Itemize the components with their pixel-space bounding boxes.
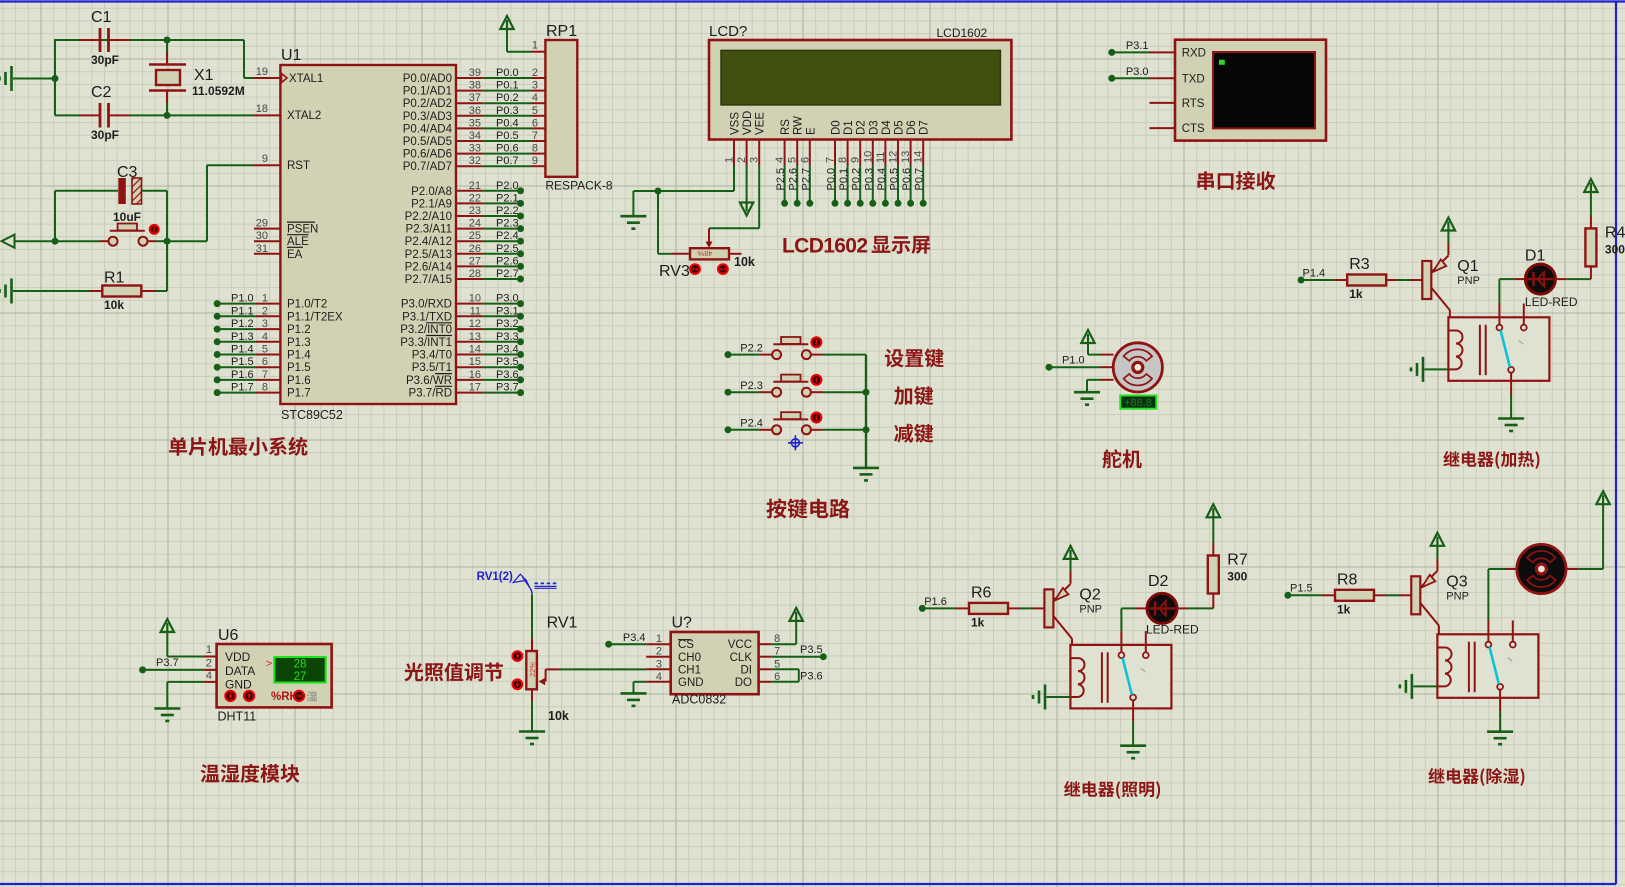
svg-text:VSS: VSS bbox=[730, 112, 742, 135]
adc pin 1 bbox=[646, 643, 671, 645]
pin P3.2 (12) + net P3.2 bbox=[456, 328, 483, 330]
transistor Q1 emitter bbox=[1447, 243, 1449, 255]
svg-text:X1: X1 bbox=[194, 67, 214, 84]
lcd net P2.7 bbox=[809, 165, 811, 200]
resistor R3 bbox=[1347, 275, 1386, 286]
servo ground wire bbox=[1087, 379, 1101, 381]
pin RST (9) bbox=[254, 164, 280, 166]
svg-text:LCD1602: LCD1602 bbox=[937, 26, 988, 40]
svg-text:P0.3: P0.3 bbox=[496, 105, 519, 117]
svg-text:VDD: VDD bbox=[742, 111, 754, 135]
svg-text:P0.5: P0.5 bbox=[496, 130, 519, 142]
svg-text:R8: R8 bbox=[1337, 571, 1358, 588]
svg-text:D7: D7 bbox=[919, 120, 931, 135]
svg-text:P2.7/A15: P2.7/A15 bbox=[405, 274, 452, 286]
label: serial section bbox=[1197, 171, 1275, 190]
svg-text:P3.3/INT1: P3.3/INT1 bbox=[400, 337, 452, 349]
svg-text:P3.2: P3.2 bbox=[496, 318, 519, 330]
svg-text:P1.3: P1.3 bbox=[231, 331, 254, 343]
pin P1.2 (3) + net P1.2 bbox=[214, 326, 221, 333]
svg-text:Q1: Q1 bbox=[1457, 258, 1478, 275]
svg-text:10k: 10k bbox=[104, 298, 124, 312]
ground (RL2 coil) bbox=[1044, 685, 1047, 710]
resistor R8 bbox=[1335, 590, 1374, 601]
svg-text:4: 4 bbox=[656, 671, 662, 683]
svg-text:2: 2 bbox=[206, 658, 212, 670]
net P3.1 bbox=[1108, 49, 1115, 56]
svg-text:RP1: RP1 bbox=[546, 23, 577, 40]
svg-text:VEE: VEE bbox=[755, 112, 767, 135]
svg-text:P0.4/AD4: P0.4/AD4 bbox=[403, 123, 453, 135]
svg-text:9: 9 bbox=[532, 155, 538, 167]
pin P1.4 (5) + net P1.4 bbox=[214, 351, 221, 358]
pin P0.6 (33) wire to RP1 pin 8 bbox=[456, 153, 483, 155]
resistor R7 300 bbox=[1212, 594, 1214, 609]
net P1.6 bbox=[919, 605, 926, 612]
actuator RV3 + bbox=[718, 264, 728, 274]
pin P0.3 (36) wire to RP1 pin 5 bbox=[456, 115, 483, 117]
svg-text:>: > bbox=[266, 658, 272, 670]
svg-text:P0.4: P0.4 bbox=[496, 117, 519, 129]
ground (RL1 coil) bbox=[1422, 357, 1425, 382]
svg-text:D5: D5 bbox=[894, 120, 906, 135]
svg-text:P1.0/T2: P1.0/T2 bbox=[287, 299, 327, 311]
keys ground bus bbox=[865, 355, 867, 468]
svg-text:P3.7: P3.7 bbox=[496, 382, 519, 394]
serial pin RTS bbox=[1150, 102, 1176, 104]
svg-text:P2.4/A12: P2.4/A12 bbox=[405, 236, 452, 248]
relay RL3 moving contact bbox=[1490, 647, 1499, 684]
svg-text:P2.7: P2.7 bbox=[496, 268, 519, 280]
svg-text:P1.5: P1.5 bbox=[1290, 583, 1313, 595]
svg-text:XTAL1: XTAL1 bbox=[289, 73, 323, 85]
pin P3.6 (16) + net P3.6 bbox=[456, 379, 483, 381]
pin XTAL2 (18) bbox=[254, 114, 280, 116]
label key 加键 bbox=[894, 386, 933, 405]
svg-text:Q2: Q2 bbox=[1079, 586, 1100, 603]
servo motor bbox=[1101, 354, 1114, 356]
power flag (DHT11) bbox=[161, 619, 174, 632]
svg-text:32: 32 bbox=[469, 155, 481, 167]
transistor Q2 (PNP) bbox=[1044, 589, 1053, 627]
svg-text:10: 10 bbox=[469, 293, 481, 305]
svg-text:C2: C2 bbox=[91, 84, 112, 101]
svg-text:4: 4 bbox=[206, 670, 212, 682]
svg-text:2: 2 bbox=[532, 67, 538, 79]
net P3.0 bbox=[1108, 75, 1115, 82]
svg-text:48%: 48% bbox=[697, 249, 712, 258]
wire VEE to RV3 wiper bbox=[758, 165, 760, 228]
svg-text:P1.4: P1.4 bbox=[231, 344, 254, 356]
label: mcu section bbox=[169, 437, 308, 456]
svg-text:TXD: TXD bbox=[1182, 73, 1205, 85]
relay RL2 core bbox=[1101, 652, 1103, 703]
actuator (P2.3 key) bbox=[812, 375, 822, 385]
pin P1.1 (2) + net P1.1 bbox=[214, 313, 221, 320]
svg-text:33: 33 bbox=[469, 143, 481, 155]
label: keys section bbox=[766, 499, 849, 519]
svg-text:P1.1: P1.1 bbox=[231, 305, 254, 317]
svg-text:18: 18 bbox=[256, 103, 268, 115]
svg-text:CH0: CH0 bbox=[678, 652, 701, 664]
svg-text:P0.6: P0.6 bbox=[496, 143, 519, 155]
svg-text:DHT11: DHT11 bbox=[218, 710, 257, 724]
svg-text:P2.6: P2.6 bbox=[788, 168, 800, 191]
adc GND wire bbox=[634, 681, 647, 683]
actuator (reset button) bbox=[150, 225, 159, 234]
svg-text:P2.2: P2.2 bbox=[740, 342, 763, 354]
svg-text:P0.2: P0.2 bbox=[851, 168, 863, 191]
svg-text:E: E bbox=[805, 127, 817, 135]
svg-text:RV1(2): RV1(2) bbox=[477, 571, 513, 583]
svg-text:D1: D1 bbox=[843, 120, 855, 135]
wire Q1 collector to relay bbox=[1449, 310, 1451, 317]
svg-text:300: 300 bbox=[1605, 242, 1625, 256]
svg-text:1: 1 bbox=[532, 40, 538, 52]
ground (RL3 common) bbox=[1499, 711, 1501, 731]
svg-text:CLK: CLK bbox=[730, 652, 753, 664]
svg-text:P2.4: P2.4 bbox=[496, 230, 519, 242]
lcd net P0.6 bbox=[910, 165, 912, 200]
power flag (servo) bbox=[1081, 330, 1094, 343]
wire Q2 collector to relay bbox=[1071, 639, 1073, 645]
net P3.7 bbox=[139, 666, 146, 673]
pin P2.5 (26) + net P2.5 bbox=[456, 253, 483, 255]
svg-text:2: 2 bbox=[262, 305, 268, 317]
wire R1 to reset node bbox=[166, 241, 168, 291]
svg-text:P1.2: P1.2 bbox=[231, 318, 254, 330]
svg-text:17: 17 bbox=[469, 382, 481, 394]
adc pin 4 bbox=[646, 681, 671, 683]
svg-text:3: 3 bbox=[749, 157, 761, 163]
svg-text:P2.2: P2.2 bbox=[496, 205, 519, 217]
adc pin 5 bbox=[759, 668, 772, 670]
svg-text:P1.4: P1.4 bbox=[287, 350, 311, 362]
svg-text:P0.7/AD7: P0.7/AD7 bbox=[403, 161, 452, 173]
svg-text:29: 29 bbox=[256, 218, 268, 230]
dehumidifier motor bbox=[1488, 568, 1505, 570]
wire RV1 wiper to CH1 bbox=[559, 668, 646, 670]
relay RL3 common pin bbox=[1499, 690, 1501, 711]
svg-text:P3.4: P3.4 bbox=[623, 632, 646, 644]
svg-text:P2.1: P2.1 bbox=[496, 192, 519, 204]
svg-text:35: 35 bbox=[469, 117, 481, 129]
serial pin RXD bbox=[1150, 51, 1176, 53]
svg-text:P0.5/AD5: P0.5/AD5 bbox=[403, 136, 452, 148]
pin P1.5 (6) + net P1.5 bbox=[214, 364, 221, 371]
svg-text:1: 1 bbox=[262, 293, 268, 305]
relay RL3 coil bbox=[1437, 648, 1445, 687]
svg-text:30pF: 30pF bbox=[91, 128, 119, 142]
svg-text:39: 39 bbox=[469, 67, 481, 79]
transistor Q1 collector bbox=[1432, 288, 1450, 310]
sheet border bbox=[0, 0, 1625, 2]
wire P2.2 to bus bbox=[823, 354, 866, 356]
wire gnd bus to RV3 bbox=[657, 191, 659, 254]
lcd net P0.4 bbox=[884, 165, 886, 200]
svg-text:P0.7: P0.7 bbox=[914, 168, 926, 191]
pin P2.2 (23) + net P2.2 bbox=[456, 215, 483, 217]
svg-text:P3.0: P3.0 bbox=[496, 293, 519, 305]
svg-text:P3.0/RXD: P3.0/RXD bbox=[401, 299, 452, 311]
svg-text:R7: R7 bbox=[1227, 552, 1248, 569]
svg-text:C1: C1 bbox=[91, 9, 112, 26]
svg-text:6: 6 bbox=[262, 356, 268, 368]
svg-text:P3.4: P3.4 bbox=[496, 344, 519, 356]
svg-text:P3.2/INT0: P3.2/INT0 bbox=[400, 324, 452, 336]
lcd screen bbox=[721, 50, 1000, 105]
svg-text:P0.6: P0.6 bbox=[901, 168, 913, 191]
net P3.4 bbox=[605, 641, 612, 648]
svg-text:2: 2 bbox=[736, 157, 748, 163]
svg-text:P0.0: P0.0 bbox=[496, 67, 519, 79]
svg-text:P2.5/A13: P2.5/A13 bbox=[405, 249, 452, 261]
svg-text:5: 5 bbox=[532, 105, 538, 117]
pin P1.3 (4) + net P1.3 bbox=[214, 338, 221, 345]
pin XTAL1 (19) bbox=[254, 77, 280, 79]
lcd net P2.5 bbox=[784, 165, 786, 200]
svg-text:1k: 1k bbox=[971, 615, 985, 629]
relay RL1 bbox=[1448, 317, 1549, 381]
label key 减键 bbox=[894, 424, 933, 443]
adc pin 8 bbox=[759, 643, 772, 645]
pin P0.4 (35) wire to RP1 pin 6 bbox=[456, 127, 483, 129]
wire probe to RV1 bbox=[531, 594, 533, 638]
resistor R1 bbox=[90, 290, 102, 292]
svg-text:14: 14 bbox=[913, 151, 925, 163]
svg-text:R3: R3 bbox=[1349, 256, 1370, 273]
svg-text:ALE: ALE bbox=[287, 236, 309, 248]
actuator RV1 up bbox=[513, 651, 523, 661]
svg-text:1: 1 bbox=[724, 157, 736, 163]
svg-text:P3.4/T0: P3.4/T0 bbox=[412, 350, 452, 362]
svg-text:28: 28 bbox=[294, 658, 307, 670]
svg-text:D3: D3 bbox=[868, 120, 880, 135]
svg-text:P2.2/A10: P2.2/A10 bbox=[405, 211, 452, 223]
pin P1.0 (1) + net P1.0 bbox=[214, 300, 221, 307]
wire VSS to gnd bbox=[733, 165, 735, 191]
svg-text:34: 34 bbox=[469, 130, 481, 142]
transistor Q2 emitter bbox=[1070, 572, 1072, 584]
pin P2.0 (21) + net P2.0 bbox=[456, 190, 483, 192]
lcd net P0.1 bbox=[847, 165, 849, 200]
transistor Q3 emitter bbox=[1436, 558, 1438, 570]
lcd net P2.6 bbox=[796, 165, 798, 200]
pin P0.2 (37) wire to RP1 pin 4 bbox=[456, 102, 483, 104]
svg-text:P1.6: P1.6 bbox=[924, 596, 947, 608]
svg-text:14: 14 bbox=[469, 344, 481, 356]
ground (RL2 common) bbox=[1132, 722, 1134, 746]
label: heater relay bbox=[1443, 451, 1539, 469]
capacitor C1 bbox=[79, 39, 100, 41]
svg-text:DATA: DATA bbox=[225, 664, 255, 678]
label: dehumidifier relay bbox=[1428, 768, 1524, 786]
svg-text:P1.2: P1.2 bbox=[287, 324, 311, 336]
svg-text:9: 9 bbox=[850, 157, 862, 163]
svg-text:P0.1: P0.1 bbox=[838, 168, 850, 191]
pin P2.7 (28) + net P2.7 bbox=[456, 278, 483, 280]
svg-text:R4: R4 bbox=[1605, 224, 1625, 241]
power flag (motor) bbox=[1596, 491, 1609, 504]
potentiometer RV3 10k bbox=[671, 253, 690, 255]
svg-text:3: 3 bbox=[656, 658, 662, 670]
svg-text:23: 23 bbox=[469, 205, 481, 217]
svg-text:P0.3/AD3: P0.3/AD3 bbox=[403, 111, 452, 123]
svg-text:LED-RED: LED-RED bbox=[1525, 295, 1578, 309]
svg-text:1k: 1k bbox=[1337, 602, 1351, 616]
svg-text:CS: CS bbox=[678, 639, 694, 651]
svg-text:EA: EA bbox=[287, 249, 303, 261]
svg-text:D1: D1 bbox=[1525, 248, 1546, 265]
pin P3.1 (11) + net P3.1 bbox=[456, 315, 483, 317]
svg-text:P1.0: P1.0 bbox=[231, 293, 254, 305]
svg-text:P0.7: P0.7 bbox=[496, 155, 519, 167]
svg-text:P3.1: P3.1 bbox=[496, 305, 519, 317]
mcu U1 STC89C52 bbox=[280, 65, 456, 404]
svg-text:LCD?: LCD? bbox=[709, 23, 747, 40]
actuator (P2.2 key) bbox=[812, 337, 822, 347]
svg-text:P2.5: P2.5 bbox=[775, 168, 787, 191]
svg-text:8: 8 bbox=[837, 157, 849, 163]
svg-text:P0.2: P0.2 bbox=[496, 92, 519, 104]
svg-text:P2.6: P2.6 bbox=[496, 255, 519, 267]
svg-text:CH1: CH1 bbox=[678, 665, 701, 677]
svg-text:30: 30 bbox=[256, 230, 268, 242]
pin P3.5 (15) + net P3.5 bbox=[456, 366, 483, 368]
svg-text:5: 5 bbox=[787, 157, 799, 163]
pin P1.7 (8) + net P1.7 bbox=[214, 389, 221, 396]
svg-text:P3.6: P3.6 bbox=[496, 369, 519, 381]
svg-text:22: 22 bbox=[469, 192, 481, 204]
transistor Q2 collector bbox=[1054, 617, 1072, 639]
svg-text:C3: C3 bbox=[117, 164, 138, 181]
wire C3 right drop bbox=[166, 191, 168, 241]
svg-text:STC89C52: STC89C52 bbox=[281, 408, 343, 422]
svg-text:28: 28 bbox=[469, 268, 481, 280]
label: servo bbox=[1102, 449, 1141, 468]
power flag down (VDD) bbox=[746, 165, 748, 203]
wire P2.4 to bus bbox=[823, 429, 866, 431]
pin P2.6 (27) + net P2.6 bbox=[456, 265, 483, 267]
adc pin 2 bbox=[646, 656, 671, 658]
relay RL1 moving contact bbox=[1501, 330, 1510, 367]
pin P3.3 (13) + net P3.3 bbox=[456, 341, 483, 343]
wire C1 top bbox=[54, 39, 56, 115]
serial pin TXD bbox=[1150, 77, 1176, 79]
svg-text:P3.3: P3.3 bbox=[496, 331, 519, 343]
svg-text:ADC0832: ADC0832 bbox=[672, 693, 726, 707]
svg-text:RS: RS bbox=[780, 119, 792, 135]
resistor R6 bbox=[969, 603, 1008, 614]
svg-text:XTAL2: XTAL2 bbox=[287, 110, 321, 122]
svg-text:3: 3 bbox=[532, 80, 538, 92]
lcd net P0.0 bbox=[834, 165, 836, 200]
ground (left, crystal caps) bbox=[10, 66, 13, 91]
lcd net P0.3 bbox=[872, 165, 874, 200]
pin EA (31) bbox=[254, 253, 280, 255]
svg-text:P1.6: P1.6 bbox=[287, 375, 311, 387]
svg-text:P0.0/AD0: P0.0/AD0 bbox=[403, 73, 452, 85]
svg-text:1: 1 bbox=[206, 644, 212, 656]
capacitor C3 (10uF polarized) bbox=[55, 190, 118, 192]
svg-text:1: 1 bbox=[656, 633, 662, 645]
ground (ADC) bbox=[621, 692, 647, 695]
svg-text:5: 5 bbox=[262, 344, 268, 356]
adc pin 7 bbox=[759, 656, 772, 658]
svg-text:P3.6: P3.6 bbox=[800, 671, 823, 683]
svg-text:13: 13 bbox=[469, 331, 481, 343]
svg-text:PNP: PNP bbox=[1079, 603, 1102, 615]
svg-text:P1.5: P1.5 bbox=[231, 356, 254, 368]
adc pin 6 bbox=[759, 681, 772, 683]
svg-text:P1.0: P1.0 bbox=[1062, 354, 1085, 366]
serial screen bbox=[1213, 52, 1315, 128]
lcd net P0.2 bbox=[859, 165, 861, 200]
svg-text:P3.1: P3.1 bbox=[1126, 40, 1149, 52]
ground (RL3 coil) bbox=[1411, 674, 1414, 699]
relay RL2 contacts bbox=[1120, 631, 1122, 655]
svg-text:RXD: RXD bbox=[1182, 47, 1206, 59]
svg-text:11: 11 bbox=[470, 305, 481, 317]
wire motor to power bbox=[1566, 568, 1579, 570]
svg-text:U1: U1 bbox=[281, 47, 302, 64]
svg-text:300: 300 bbox=[1227, 570, 1247, 584]
svg-text:13: 13 bbox=[900, 151, 912, 163]
svg-text:19: 19 bbox=[256, 66, 268, 78]
svg-text:7: 7 bbox=[532, 130, 538, 142]
push button P2.3 bbox=[725, 389, 732, 396]
relay RL1 contacts bbox=[1498, 304, 1500, 328]
svg-text:D6: D6 bbox=[906, 120, 918, 135]
svg-text:P3.5: P3.5 bbox=[496, 356, 519, 368]
resistor R4 300 bbox=[1590, 266, 1592, 279]
svg-text:4: 4 bbox=[774, 157, 786, 163]
svg-text:RTS: RTS bbox=[1182, 98, 1205, 110]
svg-text:15: 15 bbox=[469, 356, 481, 368]
pin P3.4 (14) + net P3.4 bbox=[456, 354, 483, 356]
label: DHT section bbox=[201, 764, 300, 783]
relay RL3 core bbox=[1468, 642, 1470, 693]
net P1.5 bbox=[1284, 592, 1291, 599]
svg-text:DO: DO bbox=[735, 677, 752, 689]
relay RL2 moving contact bbox=[1123, 658, 1132, 695]
wire RV1 to gnd bbox=[531, 702, 533, 732]
pin P2.1 (22) + net P2.1 bbox=[456, 202, 483, 204]
svg-text:P2.3: P2.3 bbox=[496, 218, 519, 230]
actuator DHT11 humidity down bbox=[225, 691, 235, 701]
svg-text:RW: RW bbox=[793, 116, 805, 135]
svg-text:Q3: Q3 bbox=[1446, 573, 1467, 590]
svg-text:38: 38 bbox=[469, 80, 481, 92]
svg-text:PSEN: PSEN bbox=[287, 224, 318, 236]
svg-text:P2.4: P2.4 bbox=[740, 418, 763, 430]
svg-text:R1: R1 bbox=[104, 270, 125, 287]
svg-text:6: 6 bbox=[532, 117, 538, 129]
svg-text:P2.1/A9: P2.1/A9 bbox=[411, 198, 452, 210]
svg-text:P3.5: P3.5 bbox=[800, 644, 823, 656]
svg-text:CTS: CTS bbox=[1182, 123, 1205, 135]
svg-text:P1.7: P1.7 bbox=[231, 382, 254, 394]
push button (reset) bbox=[100, 240, 109, 242]
pin ALE (30) bbox=[254, 240, 280, 242]
svg-text:P0.1: P0.1 bbox=[496, 80, 519, 92]
svg-text:36: 36 bbox=[469, 105, 481, 117]
relay RL1 common pin bbox=[1510, 373, 1512, 394]
svg-text:RV3: RV3 bbox=[659, 263, 690, 280]
push button P2.4 bbox=[725, 426, 732, 433]
input terminal (reset row) bbox=[2, 235, 15, 248]
push button P2.2 bbox=[725, 351, 732, 358]
